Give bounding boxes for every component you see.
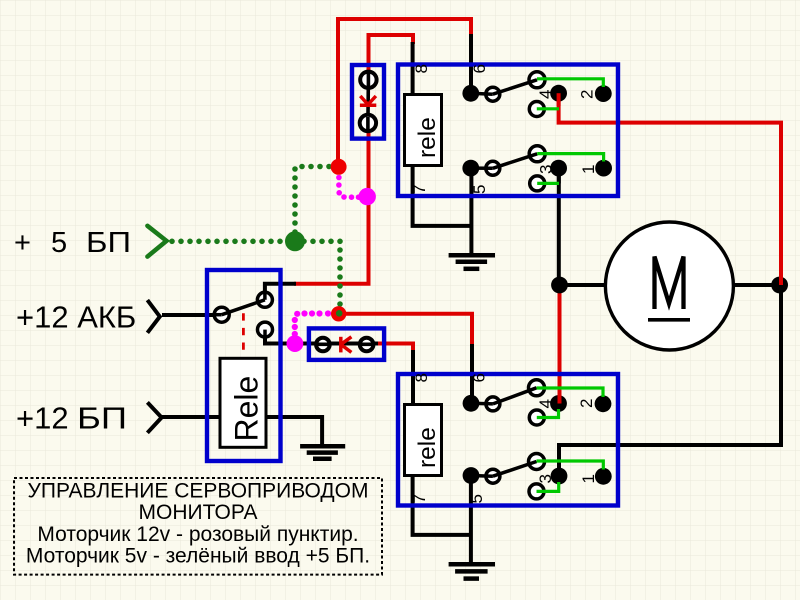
svg-text:1: 1	[579, 165, 598, 174]
green stub bottom relay row1 NO to pin4	[537, 409, 559, 418]
svg-text:2: 2	[577, 399, 596, 408]
switch bottom relay row1	[471, 380, 545, 425]
wire black top relay pin7 to ground	[413, 164, 472, 226]
wire red top inner	[369, 35, 414, 72]
wire red K1 bottom to left relay switch	[294, 130, 369, 284]
wire black left relay lower contact to K2	[265, 330, 295, 344]
ground bottom relay	[449, 564, 495, 578]
svg-text:УПРАВЛЕНИЕ СЕРВОПРИВОДОМ: УПРАВЛЕНИЕ СЕРВОПРИВОДОМ	[28, 480, 369, 503]
svg-text:5: 5	[51, 227, 67, 259]
svg-text:+: +	[14, 227, 31, 259]
svg-text:БП: БП	[77, 401, 127, 436]
pink dotted wire from magenta dot 2 up to node A	[292, 310, 331, 337]
wire black top relay pin5 to ground	[469, 166, 473, 254]
note box dashed	[14, 478, 382, 575]
junction red dot A	[331, 306, 346, 321]
svg-text:6: 6	[470, 373, 489, 382]
svg-text:8: 8	[412, 64, 431, 73]
magenta junction dot 2 at K2 input	[287, 335, 304, 352]
junction motor right	[771, 277, 788, 294]
wire black motor right	[734, 283, 780, 287]
node pin2 top	[595, 85, 612, 102]
wire black motor left	[559, 283, 605, 287]
switch top relay row1	[471, 72, 545, 117]
wire black K2 inner	[295, 342, 378, 346]
wire red top outer	[338, 19, 471, 166]
node pin4 top	[550, 85, 567, 102]
wire black bottom relay pin7 to ground	[413, 474, 471, 535]
wire red top pin4 to right node	[559, 93, 781, 285]
svg-text:Моторчик 5v - зелёный ввод +5: Моторчик 5v - зелёный ввод +5 БП.	[26, 545, 370, 568]
wire red overlay bottom pin4	[558, 390, 562, 404]
svg-text:Моторчик 12v - розовый пунктир: Моторчик 12v - розовый пунктир.	[37, 523, 358, 546]
ground top relay	[449, 255, 495, 268]
green stub top relay row2 NO to pin3 wire	[537, 182, 559, 185]
black stub top relay pin3 down	[557, 168, 561, 183]
pin labels top relay	[410, 64, 598, 194]
node pin1 top	[595, 160, 612, 177]
node pin3 bottom	[551, 468, 568, 485]
wire black +12 BP input	[162, 415, 221, 419]
wire black left relay to ground	[265, 417, 322, 445]
wire black pin8 top relay	[411, 42, 415, 96]
svg-text:5: 5	[467, 494, 486, 503]
green wire top relay row1 NC to pin2	[537, 79, 603, 87]
svg-text:+12: +12	[16, 401, 69, 436]
switch left relay	[214, 292, 273, 337]
wire red node A to bottom relay pin6	[339, 314, 472, 346]
node pin6 top	[462, 85, 479, 102]
wire black +12 AKB input	[162, 313, 214, 317]
green dotted +5 net vertical up	[292, 164, 332, 235]
relay U2 coil box rele	[405, 405, 442, 476]
svg-text:7: 7	[410, 185, 429, 194]
svg-text:2: 2	[578, 90, 597, 99]
note text	[26, 480, 370, 568]
wire black bottom relay pin8	[411, 350, 415, 406]
node pin6 bottom	[463, 395, 480, 412]
pin labels bottom relay	[410, 373, 598, 504]
relay U2 bottom blue box	[398, 374, 618, 506]
green wire bottom relay row2 NC to pin1	[537, 461, 604, 470]
label +5 BP	[14, 227, 131, 259]
connector arrow +5 BP green	[147, 226, 166, 257]
svg-text:rele: rele	[414, 117, 441, 158]
component K1 fuse vertical	[352, 65, 384, 139]
node pin2 bottom	[595, 395, 612, 412]
magenta junction dot on K1 wire	[359, 188, 376, 205]
wire red overlay top pin4	[557, 93, 561, 106]
svg-text:Rele: Rele	[229, 376, 265, 442]
wire black top relay pin3 to motor node	[557, 168, 561, 285]
wire red left node to bottom relay pin4	[558, 285, 562, 404]
red dashed coil link left relay	[242, 313, 245, 353]
node pin1 bottom	[595, 468, 612, 485]
wire black pin6 top relay	[469, 34, 473, 93]
svg-text:7: 7	[410, 494, 429, 503]
green wire bottom relay row1 NC to pin2	[537, 388, 604, 397]
svg-text:8: 8	[412, 373, 431, 382]
green stub bottom relay row2 NO to pin3	[537, 482, 559, 491]
svg-text:БП: БП	[86, 227, 131, 259]
svg-text:+12 АКБ: +12 АКБ	[16, 300, 136, 335]
svg-text:5: 5	[470, 185, 489, 194]
junction red dot B (K1 top feed)	[331, 159, 347, 175]
wire black left relay switch top	[265, 284, 296, 300]
junction motor left	[551, 277, 568, 294]
svg-text:6: 6	[470, 64, 489, 73]
connector arrow +12 AKB	[147, 300, 159, 333]
component K2 fuse horizontal	[309, 328, 384, 360]
wire red overlay right junction	[779, 268, 783, 285]
relay U3 coil box Rele	[220, 358, 266, 447]
node pin3 top	[550, 160, 567, 177]
switch top relay row2	[471, 146, 545, 191]
green stub top relay row1 NO to pin4 wire	[537, 107, 559, 110]
relay U1 top blue box	[398, 65, 618, 197]
green wire top relay row2 NC to pin1	[537, 154, 603, 162]
connector arrow +12 BP	[147, 402, 161, 432]
relay U3 left blue box	[207, 270, 281, 461]
wire black right side down	[559, 285, 781, 477]
wire black bottom relay pin5 to ground	[469, 476, 473, 562]
relay U1 coil box rele	[405, 95, 442, 166]
svg-text:rele: rele	[414, 427, 441, 468]
node pin4 bottom	[550, 395, 567, 412]
motor M1	[605, 222, 733, 350]
node pin5 bottom	[463, 467, 480, 484]
wire red K2 out to bottom relay pin8	[376, 344, 413, 353]
switch bottom relay row2	[471, 454, 545, 499]
pink dotted wire from dot B to magenta junction	[336, 175, 361, 200]
node pin5 top	[462, 160, 479, 177]
wire black bottom relay pin6	[470, 344, 474, 403]
junction green big dot	[285, 231, 305, 251]
green dotted +5 net vertical down to node A	[337, 247, 343, 307]
green center on node A	[336, 310, 343, 317]
green dotted +5 net horizontal	[169, 239, 343, 245]
svg-text:МОНИТОРА: МОНИТОРА	[139, 501, 258, 524]
ground left relay	[300, 446, 345, 459]
